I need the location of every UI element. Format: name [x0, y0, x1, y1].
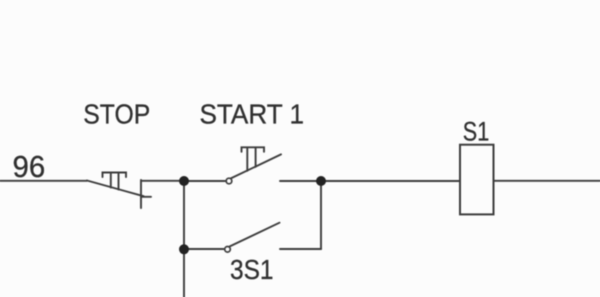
wire: node A to START 1 contact: [184, 180, 225, 182]
STOP pushbutton actuator: [103, 173, 127, 190]
wire: branch vertical node C down to 3S1: [320, 181, 322, 249]
wire: left rail to STOP contact: [0, 180, 87, 182]
wire: node C to coil S1: [321, 180, 460, 182]
START 1 pushbutton actuator: [242, 147, 265, 171]
wire: branch vertical node A to node B: [183, 181, 185, 249]
wire: coil S1 to right rail: [494, 180, 600, 182]
node B junction dot: [179, 244, 189, 254]
contact pivot circle START 1: [226, 178, 232, 184]
STOP right terminal vertical: [140, 180, 142, 208]
contact blade START 1 (NO): [231, 154, 281, 178]
svg-text:96: 96: [13, 150, 46, 184]
node C junction dot: [316, 176, 326, 186]
contact blade 3S1 (NO): [230, 223, 280, 247]
wire: START 1 contact to node C: [280, 180, 321, 182]
contact blade STOP (NC): [87, 181, 144, 197]
node A junction dot: [179, 176, 189, 186]
svg-text:STOP: STOP: [83, 98, 150, 130]
STOP contact rest tick: [141, 196, 151, 198]
coil S1: [460, 145, 494, 215]
wire: STOP to node A: [141, 180, 184, 182]
svg-text:3S1: 3S1: [230, 254, 274, 286]
contact pivot circle 3S1: [225, 247, 231, 253]
svg-text:S1: S1: [463, 117, 489, 147]
wire: 3S1 contact right segment: [280, 248, 321, 250]
wire: node B to 3S1 contact: [184, 248, 224, 250]
svg-text:START 1: START 1: [200, 99, 305, 130]
wire: node B down to bottom edge: [183, 249, 185, 297]
